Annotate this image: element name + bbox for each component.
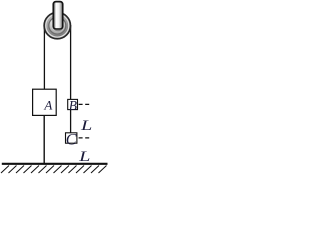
- svg-text:L: L: [78, 147, 91, 164]
- block A: [33, 89, 57, 115]
- svg-text:A: A: [43, 97, 52, 112]
- axle shadow under bracket: [55, 28, 62, 31]
- svg-text:L: L: [80, 117, 93, 134]
- wire right rope (pulley to block B): [70, 25, 72, 100]
- pulley hub ring: [49, 17, 66, 34]
- dashed reference line at C: [79, 137, 90, 139]
- block C: [66, 133, 77, 143]
- block B: [68, 99, 78, 109]
- wire rope between B and C: [70, 110, 72, 133]
- ground hatching: [1, 166, 107, 174]
- wire rope below A to ground: [43, 115, 45, 164]
- svg-text:B: B: [69, 98, 77, 113]
- dashed reference line at B: [79, 103, 90, 105]
- pulley wheel: [44, 12, 70, 38]
- pulley flange highlight ring: [46, 14, 69, 37]
- pulley bracket: [53, 2, 62, 29]
- ground line: [2, 163, 108, 165]
- svg-text:C: C: [66, 132, 77, 149]
- wire left rope (pulley to block A): [43, 25, 45, 90]
